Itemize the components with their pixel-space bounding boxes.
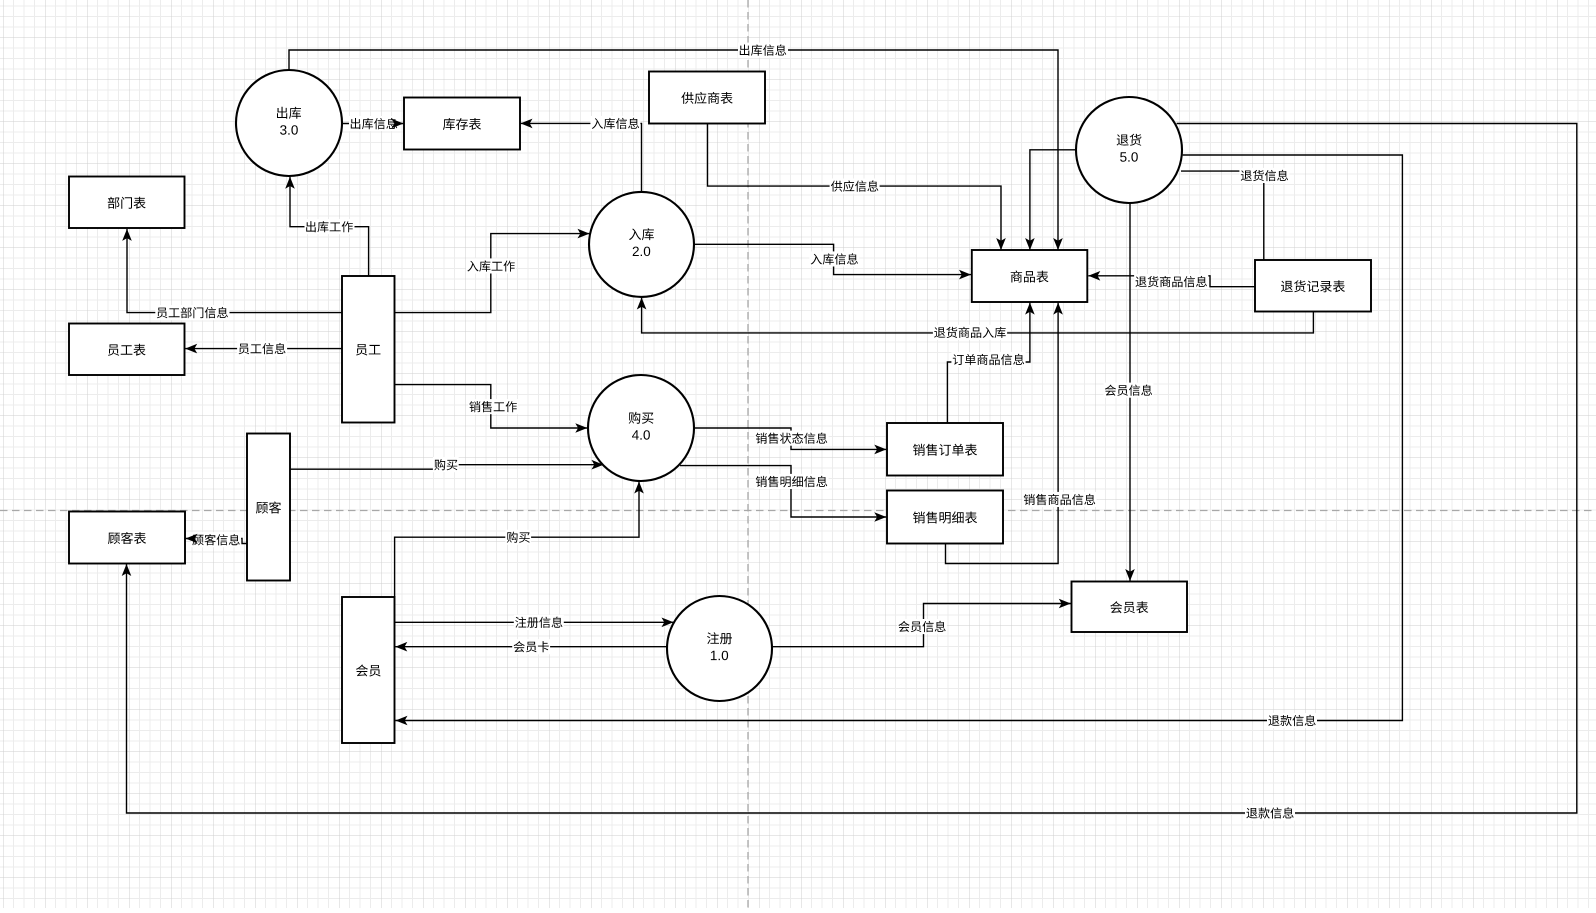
label 销售状态信息 [754, 431, 828, 446]
arrowhead 退货商品信息 into 商品表 [1088, 271, 1100, 281]
data store 会员表 [1072, 582, 1188, 633]
wire 销售商品信息 (销售明细表 to 商品表) [946, 303, 1059, 564]
label 订单商品信息 [951, 352, 1025, 367]
arrowhead 注册信息 into 注册1.0 [662, 618, 674, 628]
label 会员信息 vertical [1104, 383, 1154, 398]
process 出库 3.0 [236, 70, 342, 176]
wire 顾客信息 (顾客 to 顾客表) [186, 539, 248, 544]
label 购买 upper [433, 457, 459, 472]
label 销售明细信息 [754, 474, 828, 489]
arrowhead 员工部门信息 into 部门表 [122, 229, 132, 241]
wire 退货5.0 to 商品表 [1030, 150, 1077, 250]
process 入库 2.0 [589, 192, 694, 297]
wire 出库工作 (员工 to 出库3.0) [290, 177, 369, 276]
process 注册 1.0 [667, 596, 772, 701]
wire 销售明细信息 (购买4.0 to 销售明细表) [680, 466, 886, 517]
label 会员信息 to 会员表 [897, 619, 947, 634]
wire 退货信息 (退货5.0 to 退货记录表) [1181, 171, 1264, 259]
label 注册信息 [514, 615, 564, 630]
wire 出库信息 (出库3.0 to 库存表) [342, 123, 404, 125]
wire 注册信息 (会员 to 注册1.0) [395, 621, 674, 623]
label 退货商品入库 [933, 325, 1007, 340]
arrowhead 出库信息 into 库存表 [392, 119, 404, 129]
label 退货信息 [1239, 168, 1289, 183]
arrowhead 退款信息 into 会员 [396, 716, 408, 726]
label 退款信息 upper [1267, 713, 1317, 728]
process 购买 4.0 [588, 375, 694, 481]
wire 员工信息 (员工 to 员工表) [185, 348, 342, 350]
wire 购买 (会员 to 购买4.0) [395, 482, 639, 597]
label 员工信息 [237, 341, 287, 356]
wire 会员信息 (退货5.0 to 会员表) [1129, 203, 1131, 581]
arrowhead 出库工作 into 出库3.0 [285, 177, 295, 189]
entity 会员 [342, 597, 395, 743]
label 顾客信息 [191, 532, 241, 547]
wire 退款信息 (退货5.0 to 顾客表) [127, 124, 1577, 814]
arrowhead 购买 into 购买4.0 bottom [634, 482, 644, 494]
label 供应信息 [830, 179, 880, 194]
label 出库信息 top [738, 43, 788, 58]
process 退货 5.0 [1076, 97, 1182, 203]
arrowhead 员工信息 into 员工表 [185, 344, 197, 354]
data store 供应商表 [649, 72, 765, 124]
data store 退货记录表 [1255, 260, 1371, 312]
entity 员工 [342, 276, 395, 423]
wire 员工部门信息 (员工 to 部门表) [127, 229, 342, 313]
wire 入库信息 (入库2.0 to 库存表) [521, 123, 642, 192]
label 入库工作 [466, 258, 516, 273]
data store 员工表 [69, 324, 185, 376]
wire 购买 (顾客 to 购买4.0) [290, 465, 604, 470]
data store 商品表 [972, 250, 1088, 302]
arrowhead 销售工作 into 购买4.0 [575, 423, 587, 433]
dashed guide vertical [747, 0, 749, 908]
wire 销售工作 (员工 to 购买4.0) [395, 385, 588, 428]
arrowhead 购买 into 购买4.0 left [592, 460, 604, 470]
arrowhead 会员信息 into 会员表 left [1059, 599, 1071, 609]
wire 订单商品信息 (销售订单表 to 商品表) [947, 303, 1030, 423]
arrowhead 退款信息 into 顾客表 [122, 564, 132, 576]
wire 供应信息 (供应商表 to 商品表) [708, 124, 1002, 251]
arrowhead 入库信息 into 库存表 [521, 119, 533, 129]
wire 入库信息 (入库2.0 to 商品表) [694, 244, 971, 274]
label 销售工作 [468, 399, 518, 414]
label 出库工作 [305, 219, 355, 234]
label 退货商品信息 [1134, 274, 1208, 289]
arrowhead 订单商品信息 into 商品表 [1025, 303, 1035, 315]
label 退款信息 lower [1245, 806, 1295, 821]
data store 顾客表 [69, 512, 185, 564]
data store 部门表 [69, 177, 185, 229]
arrowhead 销售商品信息 into 商品表 [1053, 303, 1063, 315]
arrowhead 会员卡 into 会员 [395, 642, 407, 652]
arrowhead 入库信息 into 商品表 [959, 270, 971, 280]
arrowhead 销售状态信息 into 销售订单表 [874, 445, 886, 455]
arrowhead 退货商品入库 into 入库2.0 [637, 298, 647, 310]
wire 会员卡 (注册1.0 to 会员) [395, 646, 667, 648]
wire 退款信息 (退货5.0 to 会员) [396, 155, 1403, 721]
data store 库存表 [404, 98, 520, 150]
wire 会员信息 (注册1.0 to 会员表) [772, 604, 1071, 647]
wire 出库信息 top (出库3.0 to 商品表) [289, 50, 1058, 250]
wire 退货商品信息 (退货记录表 to 商品表) [1088, 276, 1255, 287]
label 销售商品信息 [1022, 492, 1096, 507]
arrowhead 供应信息 into 商品表 [996, 238, 1006, 250]
dashed guide horizontal [0, 510, 1596, 512]
arrowhead 出库信息 top into 商品表 [1053, 238, 1063, 250]
label 员工部门信息 [155, 305, 229, 320]
wire 入库工作 (员工 to 入库2.0) [395, 234, 590, 313]
arrowhead 入库工作 into 入库2.0 [578, 229, 590, 239]
arrowhead 销售明细信息 into 销售明细表 [874, 512, 886, 522]
arrowhead 顾客信息 into 顾客表 [186, 534, 198, 544]
wire 退货商品入库 (退货记录表 to 入库2.0) [642, 298, 1314, 333]
data store 销售明细表 [887, 491, 1003, 544]
label 入库信息 into 库存表 [590, 116, 640, 131]
label 出库信息 short [349, 116, 399, 131]
label 入库信息 into 商品表 [809, 251, 859, 266]
arrowhead 会员信息 into 会员表 [1125, 569, 1135, 581]
wire 销售状态信息 (购买4.0 to 销售订单表) [694, 428, 886, 449]
arrowhead 退货5.0 into 商品表 [1025, 238, 1035, 250]
label 会员卡 [512, 639, 550, 654]
entity 顾客 [247, 434, 290, 581]
data store 销售订单表 [887, 423, 1003, 476]
label 购买 lower [505, 530, 531, 545]
